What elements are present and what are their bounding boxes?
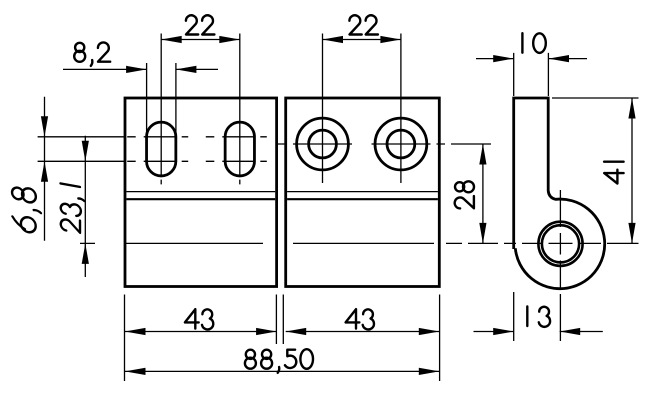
knuckle ring outer: [538, 222, 582, 266]
dimension 22 left: [161, 39, 240, 41]
hole 4 inner: [387, 130, 415, 158]
dimension 88,50: [125, 370, 439, 372]
dimension 13: [474, 331, 603, 333]
dimension 41: [631, 98, 633, 243]
dimension 43 left: [125, 331, 277, 333]
dimension 10: [476, 58, 587, 60]
hole 3 vertical centerline: [322, 34, 324, 184]
plate 2 outline: [286, 98, 440, 287]
dimension 43 right: [286, 331, 440, 333]
dimension 22 right: [323, 39, 401, 41]
bend line thin: [126, 191, 438, 193]
extension lines bottom dims: [125, 292, 514, 381]
hole 4 outer: [375, 118, 427, 170]
slot upper centerline row: [38, 136, 267, 138]
dimension 28: [482, 144, 484, 243]
extension line 41 top: [552, 97, 639, 99]
hole 4 vertical centerline: [400, 34, 402, 184]
bend line thick: [126, 198, 438, 200]
knuckle ring inner: [542, 225, 579, 262]
dimension 8,2: [63, 68, 218, 70]
dimension 6,8: [44, 97, 46, 241]
dimension 23,1: [84, 136, 86, 277]
slot 2 vertical centerline: [239, 34, 241, 185]
side view strip and knuckle scroll outline: [514, 98, 605, 289]
knuckle vertical centerline: [559, 190, 561, 341]
slot hole 2: [225, 122, 254, 176]
hole 3 inner: [309, 130, 337, 158]
extension lines top dims: [147, 53, 549, 134]
plate 2 hole centerline: [277, 143, 491, 145]
slot lower centerline row: [38, 160, 267, 162]
slot 1 vertical centerline: [160, 34, 162, 185]
main horizontal centerline: [80, 242, 639, 244]
slot hole 1: [147, 122, 176, 176]
plate 1 outline: [125, 98, 277, 287]
hole 3 outer: [297, 118, 349, 170]
